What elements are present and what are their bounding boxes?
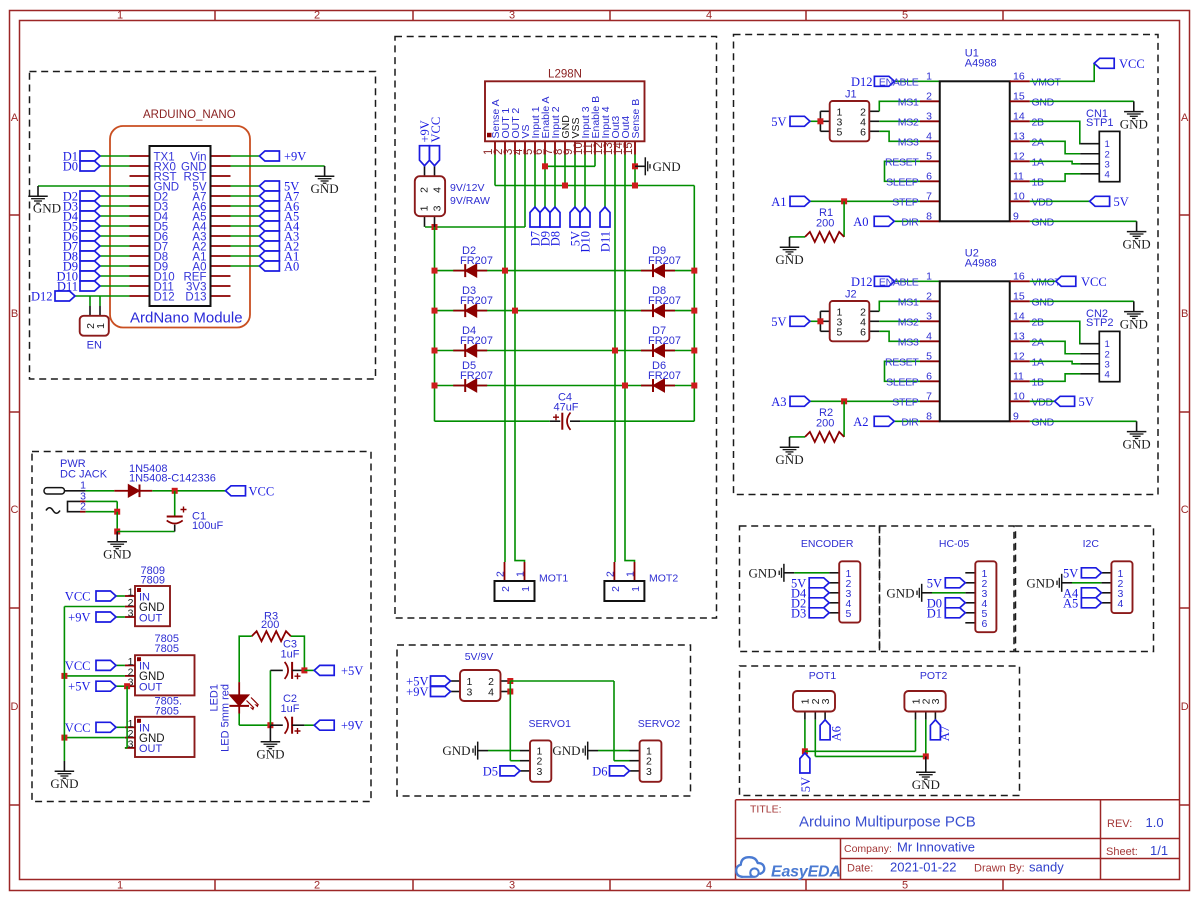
svg-text:47uF: 47uF: [553, 402, 578, 414]
svg-text:A0: A0: [853, 215, 868, 229]
svg-text:A2: A2: [853, 415, 868, 429]
svg-text:1: 1: [515, 571, 527, 577]
svg-text:FR207: FR207: [648, 335, 681, 347]
svg-text:2: 2: [314, 10, 320, 22]
svg-text:2: 2: [419, 187, 431, 193]
svg-text:HC-05: HC-05: [939, 538, 970, 550]
svg-text:6: 6: [926, 170, 932, 182]
svg-text:3: 3: [926, 310, 932, 322]
svg-text:D5: D5: [483, 764, 498, 778]
svg-text:D8: D8: [549, 231, 563, 246]
svg-text:200: 200: [816, 217, 834, 229]
svg-text:5: 5: [902, 880, 908, 892]
svg-text:2A: 2A: [1032, 137, 1045, 149]
svg-text:1: 1: [630, 586, 642, 592]
svg-text:C: C: [1181, 504, 1189, 516]
svg-text:+9V: +9V: [284, 150, 306, 164]
svg-text:2A: 2A: [1032, 337, 1045, 349]
svg-text:5V: 5V: [1079, 395, 1094, 409]
svg-text:FR207: FR207: [460, 370, 493, 382]
svg-text:D0: D0: [63, 160, 78, 174]
svg-text:VCC: VCC: [1119, 57, 1145, 71]
svg-text:2: 2: [610, 586, 622, 592]
svg-text:1A: 1A: [1032, 357, 1045, 369]
svg-text:4: 4: [1105, 169, 1110, 180]
svg-text:Arduino Multipurpose PCB: Arduino Multipurpose PCB: [799, 814, 976, 831]
svg-text:Sheet:: Sheet:: [1106, 846, 1138, 858]
svg-text:OUT: OUT: [139, 612, 163, 624]
svg-text:FR207: FR207: [648, 370, 681, 382]
svg-text:VMOT: VMOT: [1032, 77, 1062, 89]
svg-text:4: 4: [706, 880, 712, 892]
svg-text:D12: D12: [154, 291, 175, 303]
svg-text:200: 200: [261, 619, 279, 631]
svg-text:+5V: +5V: [341, 664, 363, 678]
svg-text:2: 2: [495, 571, 507, 577]
svg-text:2B: 2B: [1032, 117, 1045, 129]
svg-text:D11: D11: [599, 231, 613, 252]
svg-text:5: 5: [837, 126, 843, 138]
svg-text:STP2: STP2: [1086, 317, 1114, 329]
svg-text:A4988: A4988: [965, 257, 997, 269]
svg-text:D1: D1: [927, 606, 942, 620]
svg-text:1: 1: [926, 70, 932, 82]
svg-text:ENABLE: ENABLE: [879, 277, 919, 289]
svg-text:MS2: MS2: [898, 317, 919, 329]
svg-text:STP1: STP1: [1086, 117, 1114, 129]
svg-text:2: 2: [80, 501, 86, 513]
svg-text:Drawn By:: Drawn By:: [974, 863, 1025, 875]
svg-text:VCC: VCC: [65, 590, 91, 604]
svg-text:2: 2: [926, 90, 932, 102]
svg-text:I2C: I2C: [1083, 538, 1100, 550]
svg-text:LED 5mm red: LED 5mm red: [220, 684, 232, 752]
svg-text:3: 3: [646, 766, 652, 778]
svg-text:2: 2: [500, 586, 512, 592]
svg-text:FR207: FR207: [460, 335, 493, 347]
svg-text:5V: 5V: [1114, 195, 1129, 209]
svg-text:VDD: VDD: [1032, 197, 1054, 209]
svg-text:RESET: RESET: [885, 157, 919, 169]
svg-text:GND: GND: [33, 201, 61, 216]
svg-text:D3: D3: [791, 606, 806, 620]
svg-text:D: D: [11, 701, 19, 713]
svg-text:1: 1: [117, 10, 123, 22]
svg-text:8: 8: [926, 410, 932, 422]
svg-text:STEP: STEP: [892, 397, 919, 409]
svg-text:1: 1: [419, 205, 431, 211]
svg-text:5V: 5V: [771, 315, 786, 329]
svg-text:VCC: VCC: [429, 117, 443, 143]
svg-text:5: 5: [846, 608, 852, 620]
svg-text:RESET: RESET: [885, 357, 919, 369]
svg-text:1uF: 1uF: [281, 648, 300, 660]
svg-text:Sense B: Sense B: [630, 99, 642, 139]
svg-text:MS1: MS1: [898, 97, 919, 109]
svg-text:FR207: FR207: [460, 295, 493, 307]
svg-text:6: 6: [860, 326, 866, 338]
svg-text:6: 6: [982, 618, 988, 630]
svg-text:6: 6: [926, 370, 932, 382]
svg-text:+9V: +9V: [406, 685, 428, 699]
svg-text:EasyEDA: EasyEDA: [771, 864, 841, 881]
svg-text:C: C: [11, 504, 19, 516]
svg-text:9V/RAW: 9V/RAW: [450, 195, 490, 207]
svg-text:Mr Innovative: Mr Innovative: [897, 840, 975, 855]
svg-text:GND: GND: [1032, 297, 1055, 309]
svg-text:FR207: FR207: [460, 255, 493, 267]
svg-text:2B: 2B: [1032, 317, 1045, 329]
svg-text:ENABLE: ENABLE: [879, 77, 919, 89]
svg-text:5V: 5V: [927, 576, 942, 590]
svg-text:3: 3: [467, 687, 473, 699]
svg-text:5: 5: [837, 326, 843, 338]
svg-text:POT2: POT2: [920, 670, 948, 682]
svg-text:GND: GND: [1032, 97, 1055, 109]
svg-text:4: 4: [926, 130, 932, 142]
svg-text:100uF: 100uF: [192, 520, 223, 532]
svg-text:5V: 5V: [1063, 566, 1078, 580]
svg-text:OUT: OUT: [139, 682, 163, 694]
svg-text:7: 7: [926, 390, 932, 402]
svg-text:Date:: Date:: [847, 863, 873, 875]
svg-text:FR207: FR207: [648, 295, 681, 307]
svg-text:A7: A7: [938, 726, 952, 741]
svg-text:3: 3: [509, 880, 515, 892]
svg-text:A: A: [11, 112, 19, 124]
svg-text:1: 1: [926, 270, 932, 282]
svg-text:7805: 7805: [155, 706, 179, 718]
svg-text:DIR: DIR: [901, 417, 919, 429]
svg-text:9V/12V: 9V/12V: [450, 182, 484, 194]
svg-text:A0: A0: [284, 260, 299, 274]
svg-text:A: A: [1181, 112, 1189, 124]
svg-text:4: 4: [432, 187, 444, 193]
svg-text:B: B: [11, 308, 18, 320]
svg-text:FR207: FR207: [648, 255, 681, 267]
svg-text:+5V: +5V: [68, 680, 90, 694]
svg-text:SERVO1: SERVO1: [529, 718, 572, 730]
svg-text:MS2: MS2: [898, 117, 919, 129]
svg-text:5V/9V: 5V/9V: [465, 651, 494, 663]
svg-text:VCC: VCC: [1081, 275, 1107, 289]
svg-text:DIR: DIR: [901, 217, 919, 229]
svg-text:D10: D10: [579, 231, 593, 253]
svg-text:4: 4: [926, 330, 932, 342]
svg-text:3: 3: [128, 608, 134, 620]
svg-text:ENCODER: ENCODER: [801, 538, 854, 550]
svg-text:VDD: VDD: [1032, 397, 1054, 409]
svg-text:7809: 7809: [141, 575, 165, 587]
svg-text:3: 3: [432, 205, 444, 211]
svg-text:POT1: POT1: [809, 670, 837, 682]
svg-text:sandy: sandy: [1029, 860, 1064, 875]
svg-text:6: 6: [860, 126, 866, 138]
svg-text:D6: D6: [592, 764, 607, 778]
svg-text:Company:: Company:: [844, 843, 892, 855]
svg-text:5V: 5V: [799, 777, 813, 792]
svg-text:7: 7: [926, 190, 932, 202]
svg-text:200: 200: [816, 417, 834, 429]
svg-text:+9V: +9V: [341, 719, 363, 733]
svg-text:A4988: A4988: [965, 57, 997, 69]
svg-text:MOT1: MOT1: [539, 573, 568, 585]
svg-text:A5: A5: [1063, 596, 1078, 610]
svg-text:1.0: 1.0: [1146, 815, 1164, 830]
svg-text:1: 1: [625, 571, 637, 577]
svg-text:5: 5: [926, 150, 932, 162]
svg-text:2: 2: [604, 571, 616, 577]
svg-text:5: 5: [926, 350, 932, 362]
svg-text:D13: D13: [185, 291, 206, 303]
svg-text:3: 3: [537, 766, 543, 778]
svg-text:1: 1: [117, 880, 123, 892]
svg-text:1/1: 1/1: [1150, 843, 1168, 858]
svg-text:4: 4: [488, 687, 494, 699]
svg-text:1B: 1B: [1032, 377, 1045, 389]
svg-text:J2: J2: [845, 288, 857, 300]
svg-text:SLEEP: SLEEP: [886, 177, 919, 189]
svg-text:3: 3: [926, 110, 932, 122]
svg-text:3: 3: [930, 698, 942, 704]
svg-text:3: 3: [820, 698, 832, 704]
svg-text:3: 3: [128, 738, 134, 750]
svg-text:4: 4: [1118, 598, 1124, 610]
svg-text:ARDUINO_NANO: ARDUINO_NANO: [143, 109, 236, 121]
svg-text:MS3: MS3: [898, 137, 919, 149]
svg-text:VCC: VCC: [249, 484, 275, 498]
svg-text:MOT2: MOT2: [649, 573, 678, 585]
svg-text:1N5408-C142336: 1N5408-C142336: [129, 473, 216, 485]
svg-text:SLEEP: SLEEP: [886, 377, 919, 389]
svg-text:8: 8: [926, 210, 932, 222]
svg-text:VCC: VCC: [65, 721, 91, 735]
svg-text:D12: D12: [851, 75, 873, 89]
svg-text:SERVO2: SERVO2: [638, 718, 681, 730]
svg-text:+9V: +9V: [68, 611, 90, 625]
svg-text:MS3: MS3: [898, 337, 919, 349]
svg-text:15: 15: [623, 142, 635, 155]
svg-text:B: B: [1181, 308, 1188, 320]
svg-text:L298N: L298N: [548, 69, 582, 81]
svg-text:A6: A6: [829, 726, 843, 741]
svg-text:4: 4: [706, 10, 712, 22]
svg-text:EN: EN: [87, 340, 102, 352]
svg-text:3: 3: [509, 10, 515, 22]
svg-text:REV:: REV:: [1107, 818, 1132, 830]
svg-text:TITLE:: TITLE:: [750, 804, 782, 816]
svg-text:VCC: VCC: [65, 659, 91, 673]
svg-text:A3: A3: [771, 395, 786, 409]
svg-text:4: 4: [1105, 369, 1110, 380]
svg-text:OUT: OUT: [139, 743, 163, 755]
svg-text:D: D: [1181, 701, 1189, 713]
svg-text:GND: GND: [1032, 217, 1055, 229]
svg-text:2: 2: [926, 290, 932, 302]
svg-text:1B: 1B: [1032, 177, 1045, 189]
svg-text:A1: A1: [771, 195, 786, 209]
svg-text:1uF: 1uF: [281, 703, 300, 715]
svg-text:D12: D12: [31, 290, 53, 304]
svg-text:5: 5: [902, 10, 908, 22]
svg-text:ArdNano Module: ArdNano Module: [130, 310, 243, 327]
svg-text:7805: 7805: [155, 643, 179, 655]
svg-text:1A: 1A: [1032, 157, 1045, 169]
svg-text:2021-01-22: 2021-01-22: [890, 860, 957, 875]
svg-text:1: 1: [95, 323, 107, 329]
svg-text:D12: D12: [851, 275, 873, 289]
svg-text:1: 1: [520, 586, 532, 592]
svg-text:2: 2: [314, 880, 320, 892]
svg-text:MS1: MS1: [898, 297, 919, 309]
svg-text:GND: GND: [1032, 417, 1055, 429]
svg-text:5V: 5V: [771, 115, 786, 129]
svg-text:STEP: STEP: [892, 197, 919, 209]
svg-text:J1: J1: [845, 88, 857, 100]
